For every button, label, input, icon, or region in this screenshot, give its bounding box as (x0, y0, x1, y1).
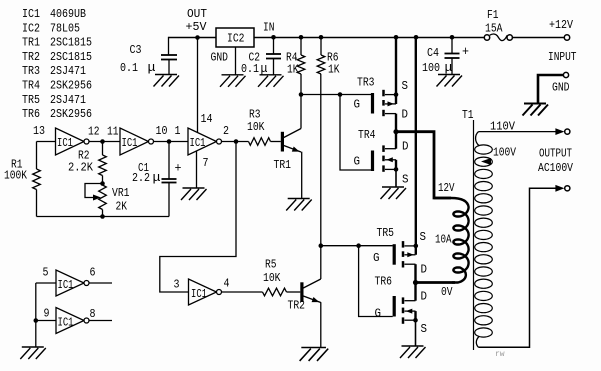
svg-text:0V: 0V (441, 285, 453, 299)
potentiometer VR1 2K (99, 185, 107, 210)
wire fuse to +12V terminal (512, 37, 564, 39)
wire TR1 collector (300, 95, 302, 129)
regulator IC2 78L05 (216, 28, 254, 47)
capacitor C3 (168, 37, 170, 55)
wire 110V tap to output terminal (479, 131, 557, 133)
svg-text:10: 10 (156, 124, 168, 138)
svg-text:IC1: IC1 (22, 7, 40, 21)
junction half-bridge B node (413, 280, 418, 285)
junction gate bus B at R6 (319, 243, 324, 248)
svg-text:2.2: 2.2 (132, 171, 150, 185)
svg-text:D: D (402, 140, 409, 154)
svg-text:+: + (175, 161, 182, 176)
junction TR6 source (413, 318, 418, 323)
wire IC1 pin7 ground lead (196, 151, 198, 188)
svg-text:IC1: IC1 (191, 287, 207, 301)
wire +5V rail (169, 37, 217, 39)
wire R4 to gate bus A (300, 74, 302, 95)
wire 10 to 1 (154, 141, 189, 143)
junction R6 top (319, 35, 324, 40)
ground TR1 (286, 199, 312, 211)
svg-text:D: D (421, 263, 428, 277)
wire node B to transformer 0V tap (416, 281, 456, 284)
wire pin4 to R5 (222, 291, 263, 293)
junction TR4 gate branch (338, 92, 343, 97)
junction R4 top (299, 35, 304, 40)
svg-text:μ: μ (445, 60, 453, 75)
wire +12V IN rail (254, 37, 484, 39)
junction R2-VR1 (100, 181, 105, 186)
ground unused inputs (20, 347, 46, 359)
junction node 2 (234, 139, 239, 144)
svg-text:S: S (402, 173, 409, 187)
wire node 2 to R3 (222, 141, 249, 143)
wire feedback node2 to pin3 (160, 142, 236, 293)
svg-text:TR4: TR4 (22, 79, 40, 93)
wire gate bus A (301, 94, 371, 96)
transistor TR2 2SC1815 (300, 282, 303, 302)
svg-text:IC1: IC1 (122, 136, 138, 150)
svg-text:μ: μ (153, 170, 161, 185)
wire pin8 stub (89, 320, 112, 322)
svg-text:μ: μ (261, 61, 268, 76)
inverter IC1a pins 13-12 (56, 128, 85, 155)
capacitor C4 100u polar (451, 37, 453, 53)
svg-text:100V: 100V (493, 146, 517, 160)
transformer T1 secondary winding (475, 145, 493, 154)
ground C2 (258, 75, 284, 87)
svg-text:9: 9 (44, 307, 50, 321)
svg-text:78L05: 78L05 (50, 21, 80, 35)
svg-text:12: 12 (88, 125, 100, 139)
wire R5 to TR2 base (287, 291, 301, 293)
svg-text:GND: GND (211, 51, 229, 65)
ground TR4 (381, 187, 407, 199)
wire input ground (538, 75, 563, 104)
terminal +12V INPUT (564, 35, 569, 40)
wire bus2 drain node B (414, 264, 416, 301)
capacitor C2 (273, 37, 275, 54)
svg-text:IC1: IC1 (57, 136, 73, 150)
svg-text:VR1: VR1 (112, 186, 130, 200)
svg-text:+5V: +5V (186, 20, 208, 34)
svg-text:μ: μ (148, 60, 156, 75)
svg-text:10K: 10K (263, 271, 281, 285)
wire secondary bottom to output terminal (479, 188, 557, 347)
svg-text:10A: 10A (435, 233, 452, 247)
wire pin9 input (36, 320, 56, 322)
svg-text:TR5: TR5 (22, 93, 40, 107)
svg-text:rw: rw (495, 350, 505, 359)
svg-text:TR2: TR2 (22, 50, 40, 64)
svg-text:2SJ471: 2SJ471 (50, 93, 86, 107)
svg-text:1K: 1K (287, 63, 299, 77)
junction half-bridge A node (393, 129, 398, 134)
svg-text:1: 1 (175, 124, 181, 138)
wire pin6 stub (89, 282, 112, 284)
junction node 1 (167, 139, 172, 144)
svg-text:0.1: 0.1 (241, 62, 259, 76)
svg-text:2.2K: 2.2K (68, 161, 94, 175)
svg-text:C4: C4 (427, 46, 439, 60)
terminal output AC (565, 186, 570, 191)
ground TR2 (300, 348, 329, 361)
svg-text:F1: F1 (487, 8, 499, 22)
svg-text:0.1: 0.1 (120, 61, 138, 75)
svg-text:INPUT: INPUT (548, 50, 577, 64)
junction VR1 bottom (100, 214, 105, 219)
svg-text:T1: T1 (462, 108, 474, 122)
junction C4 node (450, 35, 455, 40)
svg-text:OUTPUT: OUTPUT (539, 147, 572, 161)
ground input (523, 104, 549, 116)
terminal GND INPUT (563, 72, 568, 77)
svg-text:14: 14 (201, 112, 213, 126)
svg-text:OUT: OUT (187, 7, 207, 21)
wire TR2 emitter to ground (320, 302, 322, 347)
svg-text:TR5: TR5 (377, 226, 395, 240)
wire bus1 drain node (395, 114, 397, 149)
svg-text:S: S (420, 230, 427, 244)
svg-text:+: + (462, 44, 469, 59)
ground C3 (154, 75, 180, 87)
svg-text:TR3: TR3 (22, 64, 40, 78)
svg-text:IC1: IC1 (190, 136, 206, 150)
wire pins 5/9 tie to ground (35, 283, 37, 347)
svg-text:D: D (421, 290, 428, 304)
wire bus2 +12V to TR5 source (415, 37, 417, 255)
svg-text:IC1: IC1 (58, 278, 74, 292)
terminal output 110V (565, 129, 570, 134)
svg-text:2K: 2K (116, 200, 128, 214)
svg-text:5: 5 (43, 266, 49, 280)
wire pin13 input (37, 141, 56, 143)
svg-text:1K: 1K (328, 63, 340, 77)
svg-text:3: 3 (174, 278, 180, 292)
svg-text:13: 13 (33, 124, 45, 138)
svg-text:S: S (402, 79, 409, 93)
svg-text:+12V: +12V (549, 18, 574, 32)
wire TR4 source to ground (395, 169, 397, 187)
junction +5V node (195, 35, 200, 40)
wire pin5 input (36, 282, 56, 284)
svg-text:10K: 10K (247, 120, 265, 134)
svg-text:IN: IN (263, 21, 275, 35)
svg-text:TR1: TR1 (22, 36, 40, 50)
junction bus2 top (414, 35, 419, 40)
wire oscillator bottom rail (37, 216, 170, 218)
ground IC2 (220, 75, 246, 87)
svg-text:AC100V: AC100V (538, 161, 574, 175)
svg-text:12V: 12V (438, 181, 455, 195)
wire TR6 gate branch (359, 246, 393, 317)
wire gate bus B (321, 245, 393, 247)
resistor R4 1K (300, 37, 302, 55)
wire TR6 source to ground (415, 320, 417, 346)
node 100V tap (481, 158, 491, 165)
svg-text:IC1: IC1 (58, 316, 74, 330)
ground TR6 (400, 346, 426, 358)
junction C2 node (271, 35, 276, 40)
svg-text:TR1: TR1 (274, 158, 292, 172)
svg-text:IC2: IC2 (22, 21, 40, 35)
wire IC2 ground lead (235, 47, 237, 75)
svg-text:2SC1815: 2SC1815 (50, 36, 92, 50)
inverter IC1c pins 1-2 (188, 128, 217, 155)
svg-text:S: S (421, 322, 428, 336)
svg-text:11: 11 (107, 125, 119, 139)
wire 12 to 11 (89, 141, 120, 143)
svg-text:G: G (375, 307, 382, 321)
wire TR6 source tie (414, 311, 416, 320)
svg-text:4: 4 (224, 277, 230, 291)
svg-text:G: G (354, 155, 361, 169)
junction TR4 source (394, 167, 399, 172)
wire bus1 source TR3 (395, 37, 397, 104)
wire TR4 gate branch (340, 95, 371, 171)
junction pin9 input (34, 318, 39, 323)
svg-text:TR6: TR6 (375, 275, 393, 289)
junction TR5 source (414, 244, 419, 249)
transformer T1 primary winding (434, 198, 469, 283)
ground IC1 pin7 (181, 188, 207, 200)
svg-text:TR6: TR6 (22, 107, 40, 121)
svg-text:TR2: TR2 (288, 299, 306, 313)
svg-text:R5: R5 (265, 258, 277, 272)
svg-text:110V: 110V (490, 120, 516, 134)
wire IC1 pin14 supply (197, 38, 199, 133)
svg-text:2SJ471: 2SJ471 (50, 64, 86, 78)
svg-text:G: G (354, 98, 361, 112)
svg-text:6: 6 (90, 266, 96, 280)
svg-text:7: 7 (203, 156, 209, 170)
wire TR1 emitter to ground (301, 152, 303, 199)
resistor R6 1K (320, 37, 322, 55)
svg-text:2: 2 (223, 124, 229, 138)
svg-text:100K: 100K (4, 169, 28, 183)
junction gate bus A at R4 (299, 92, 304, 97)
transistor TR1 2SC1815 (281, 132, 284, 152)
svg-text:2SK2956: 2SK2956 (50, 79, 92, 93)
svg-text:TR4: TR4 (358, 128, 376, 142)
svg-text:2SK2956: 2SK2956 (50, 107, 92, 121)
wire R6 to gate bus B (320, 74, 322, 246)
svg-text:D: D (402, 108, 409, 122)
junction node 12 (100, 139, 105, 144)
svg-text:GND: GND (552, 81, 570, 95)
svg-text:100: 100 (422, 61, 440, 75)
wire TR4 source tie (395, 160, 397, 170)
capacitor C1 2.2u polar (168, 142, 170, 180)
ground C4 (437, 75, 463, 87)
svg-text:2SC1815: 2SC1815 (50, 50, 92, 64)
svg-text:IC2: IC2 (227, 32, 245, 46)
junction bus1 top (394, 35, 399, 40)
svg-text:C3: C3 (130, 43, 142, 57)
wire TR2 collector (320, 246, 322, 279)
svg-text:8: 8 (90, 307, 96, 321)
wire node A to transformer 12V tap (396, 132, 451, 198)
wire R3 to TR1 base (271, 141, 281, 143)
junction TR6 gate branch (356, 243, 361, 248)
junction TR3 source (394, 92, 399, 97)
svg-text:TR3: TR3 (357, 76, 375, 90)
svg-text:4069UB: 4069UB (50, 7, 86, 21)
svg-text:G: G (373, 251, 380, 265)
